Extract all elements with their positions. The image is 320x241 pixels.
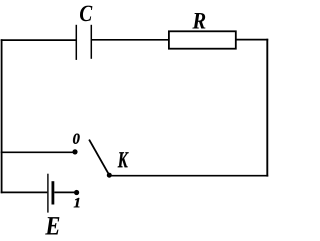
wire: branch to node 0 (1, 151, 75, 153)
wire: top left segment to capacitor (1, 39, 76, 41)
node 1 terminal dot (74, 190, 79, 195)
wire: resistor to right rail (236, 39, 268, 41)
resistor R (169, 31, 236, 48)
wire: capacitor to resistor (92, 39, 168, 41)
node 0 terminal dot (72, 149, 77, 154)
label R (192, 13, 205, 29)
label K (118, 152, 129, 167)
wire: switch to right rail (109, 175, 268, 177)
wire: battery to node 1 (54, 191, 76, 193)
label C (80, 6, 92, 22)
battery E long plate (47, 174, 49, 213)
label 0 (73, 134, 80, 144)
switch K lever (89, 140, 109, 176)
label 1 (74, 198, 80, 207)
wire: right rail (266, 39, 268, 177)
wire: left rail (1, 39, 3, 193)
wire: battery branch left (1, 191, 48, 193)
switch K pivot dot (107, 173, 112, 178)
label E (45, 217, 59, 234)
capacitor C (76, 25, 91, 60)
battery E short thick plate (52, 181, 55, 204)
